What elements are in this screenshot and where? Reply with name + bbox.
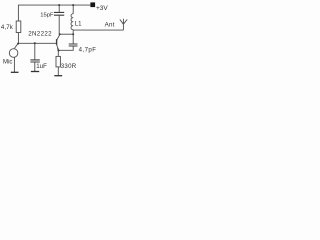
wire emitter node to 330R [57,50,59,56]
svg-text:Mic: Mic [3,58,12,65]
svg-text:L1: L1 [75,20,82,27]
svg-text:+3V: +3V [96,5,108,12]
svg-text:330R: 330R [61,63,77,70]
+3V terminal square [90,2,95,7]
node rail/15pF [58,4,60,6]
microphone Mic [9,49,18,58]
wire 330R to ground [57,67,59,76]
wire 1uF to ground [34,62,36,71]
wire top rail +3V [18,5,90,21]
transistor Q1 base bar [56,39,58,45]
wire L1 bottom segment [72,30,74,35]
svg-text:4,7k: 4,7k [1,24,14,31]
node base junction [17,43,19,45]
wire R bottom to base node [17,33,19,44]
resistor 330R [56,56,60,67]
resistor R 4,7k [16,21,21,33]
ground 1uF [31,71,39,73]
wire mic stub [14,44,18,49]
svg-text:2N2222: 2N2222 [28,31,52,38]
wire base [18,42,56,44]
transistor Q1 emitter lead with arrow [57,45,59,51]
transistor Q1 collector lead [57,34,60,40]
node rail/L1 [72,4,74,6]
wire 15pF top to rail [58,5,60,12]
wire 4,7pF to emitter node [59,46,74,50]
antenna symbol [120,19,127,30]
node 1uF tap [34,42,36,44]
ground mic [11,71,19,73]
capacitor 1uF [30,60,39,62]
ground 330R [54,75,62,77]
capacitor 15pF [54,12,64,15]
inductor L1 [71,14,73,30]
svg-text:4,7pF: 4,7pF [79,47,97,54]
wire collector up to 15pF [58,15,60,34]
svg-text:15pF: 15pF [40,13,54,19]
svg-text:Ant: Ant [105,21,115,28]
wire L1 node down to 4,7pF [72,34,74,44]
svg-text:1uF: 1uF [36,63,47,70]
wire 1uF lead [34,43,36,60]
wire mic to ground [13,57,15,72]
capacitor 4,7pF [69,44,78,46]
wire rail to L1 [72,5,74,14]
wire collector node to L1 node [59,33,73,35]
node L1 bottom [72,33,74,35]
wire antenna feed [73,29,123,31]
node collector [59,33,61,35]
node emitter [58,50,60,52]
